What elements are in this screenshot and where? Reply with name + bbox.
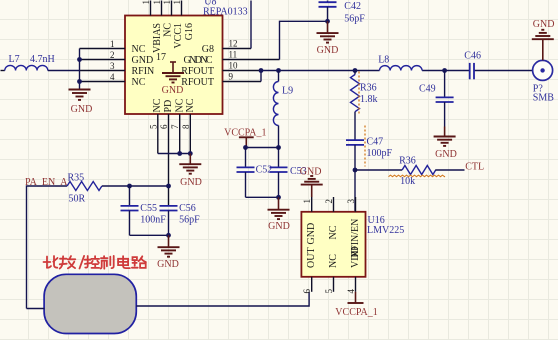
svg-text:GND: GND <box>162 85 184 96</box>
svg-text:NC: NC <box>162 23 173 37</box>
svg-text:LMV225: LMV225 <box>367 225 404 236</box>
wire PA_EN_A corner <box>27 186 68 309</box>
svg-text:RFIN: RFIN <box>132 66 155 77</box>
svg-text:NC: NC <box>328 225 339 239</box>
node C47 bottom junction <box>353 168 358 173</box>
node C42 junction <box>325 19 330 24</box>
svg-text:12: 12 <box>229 39 238 49</box>
svg-text:L7: L7 <box>9 54 20 65</box>
U16 pin 4 VDD <box>346 246 361 293</box>
capacitor C56 56pF <box>160 203 201 235</box>
ground below C42 <box>317 21 339 56</box>
svg-text:C49: C49 <box>419 84 436 95</box>
node pins 9-10 junction <box>259 68 264 73</box>
U8 bottom pin 6 PD <box>159 100 174 206</box>
wire C55 to C56 bottom <box>130 234 169 236</box>
wire C52 to C53 bottom <box>246 196 279 198</box>
svg-text:100nF: 100nF <box>140 214 166 225</box>
U8 pin 10 RFOUT <box>181 61 261 77</box>
svg-text:VCCPA_1: VCCPA_1 <box>335 307 377 318</box>
svg-text:9: 9 <box>229 72 234 82</box>
wire main RF line <box>261 70 532 72</box>
svg-text:GNDNC: GNDNC <box>184 55 213 66</box>
svg-text:R36: R36 <box>399 156 416 167</box>
svg-text:6: 6 <box>302 289 312 294</box>
svg-text:GND: GND <box>132 55 154 66</box>
U8 top pin names VBIAS NC VCC1 G16 <box>152 23 195 53</box>
U16 pin 1 GND <box>302 197 317 245</box>
U8 bottom pin 5 NC <box>148 98 163 153</box>
wire VCC node <box>246 147 279 149</box>
U8 pin 12 G8 <box>202 39 251 55</box>
inductor L7 <box>1 54 80 71</box>
svg-text:1: 1 <box>302 199 312 204</box>
svg-text:100pF: 100pF <box>367 148 393 159</box>
svg-text:G8: G8 <box>202 44 214 55</box>
svg-text:3: 3 <box>110 61 115 71</box>
capacitor C42 56pF <box>319 1 366 25</box>
svg-text:2: 2 <box>324 199 334 204</box>
svg-text:4.7nH: 4.7nH <box>30 54 55 65</box>
U16 pin 5 NC <box>324 254 339 294</box>
U8 pin 3 RFIN <box>80 61 155 77</box>
svg-text:GND: GND <box>435 149 457 160</box>
connector P? SMB <box>533 60 555 103</box>
svg-text:C55: C55 <box>140 203 157 214</box>
svg-text:3: 3 <box>346 199 356 204</box>
capacitor C55 100nF <box>121 186 167 235</box>
svg-text:15: 15 <box>152 0 162 5</box>
svg-text:13: 13 <box>172 0 182 5</box>
svg-text:GND: GND <box>533 19 555 30</box>
svg-text:GND: GND <box>317 45 339 56</box>
op-amp U16 LMV225 body <box>301 212 365 277</box>
node C56 top <box>166 184 171 189</box>
power port VCCPA_1 left <box>224 128 266 148</box>
U16 pin 3 RFIN/EN <box>346 197 361 258</box>
capacitor C47 100pF <box>346 137 393 171</box>
svg-text:10k: 10k <box>400 176 415 187</box>
node C49 tap <box>442 68 447 73</box>
svg-text:16: 16 <box>141 0 151 5</box>
ground above U16 pin1 <box>300 167 323 198</box>
svg-text:G16: G16 <box>184 23 195 40</box>
power port VCCPA_1 under U16 pin4 <box>335 292 377 318</box>
node R36 tap <box>353 68 358 73</box>
U8 internal ground symbol <box>162 62 184 96</box>
node C53 top <box>276 145 281 150</box>
svg-text:56pF: 56pF <box>344 14 365 25</box>
svg-text:5: 5 <box>148 124 158 129</box>
svg-text:C56: C56 <box>179 203 196 214</box>
capacitor C49 <box>419 71 454 127</box>
wire block to U16 pin6 <box>136 292 309 306</box>
U16 pin 2 NC <box>324 197 339 240</box>
node C52 top <box>243 145 248 150</box>
svg-text:PD: PD <box>163 100 174 113</box>
svg-text:NC: NC <box>328 254 339 268</box>
ground left of U8 <box>69 90 93 116</box>
svg-text:GND: GND <box>268 221 290 232</box>
svg-text:VDD: VDD <box>350 246 361 268</box>
svg-text:NC: NC <box>132 44 146 55</box>
svg-text:R35: R35 <box>68 173 85 184</box>
node L9 tap <box>276 68 281 73</box>
svg-text:11: 11 <box>229 50 238 60</box>
ground above SMB <box>532 19 555 60</box>
U16 pin 6 OUT <box>302 247 317 293</box>
svg-text:VCC1: VCC1 <box>173 23 184 49</box>
svg-text:C46: C46 <box>464 51 481 62</box>
svg-text:R36: R36 <box>360 83 377 94</box>
inductor L8 <box>378 55 422 71</box>
inductor L9 <box>273 71 293 148</box>
svg-text:NC: NC <box>174 98 185 112</box>
svg-text:NC: NC <box>132 77 146 88</box>
svg-text:L9: L9 <box>282 86 293 97</box>
svg-text:NC: NC <box>185 98 196 112</box>
capacitor C46 <box>464 51 481 80</box>
ground below C52 C53 <box>268 197 290 232</box>
node pin2 junction <box>77 57 82 62</box>
svg-text:8: 8 <box>181 124 191 129</box>
ground below C55 C56 <box>157 235 179 270</box>
node pin4 junction <box>77 79 82 84</box>
svg-text:C42: C42 <box>344 1 361 12</box>
wire pin11 riser to C42 <box>280 21 328 59</box>
resistor R36 1.8k <box>351 71 378 140</box>
svg-text:GND: GND <box>157 259 179 270</box>
svg-text:56pF: 56pF <box>179 214 200 225</box>
svg-text:NC: NC <box>152 98 163 112</box>
resistor R35 50R <box>67 173 168 205</box>
svg-text:GND: GND <box>71 104 93 115</box>
capacitor C52 <box>237 148 273 198</box>
svg-text:10: 10 <box>229 61 239 71</box>
node C55 top <box>127 184 132 189</box>
wire to U16 pin3 <box>354 170 356 212</box>
U8 bottom pin 7 NC <box>170 98 185 153</box>
svg-text:L8: L8 <box>378 55 389 66</box>
text 比较/控制电路 <box>44 256 146 269</box>
svg-text:REPA0133: REPA0133 <box>203 6 248 17</box>
U8 bottom pin 8 NC <box>181 98 196 153</box>
orange marker beside C47 <box>364 126 366 167</box>
orange marker beside R36 <box>358 72 360 114</box>
U8 hidden pin 17 label <box>156 52 166 63</box>
U8 pin 1 NC <box>80 39 146 55</box>
svg-text:2: 2 <box>110 50 115 60</box>
orange squiggle under 10k <box>389 175 446 177</box>
wire into block left <box>27 308 45 310</box>
capacitor C53 <box>270 148 307 198</box>
svg-text:C47: C47 <box>367 137 384 148</box>
ground below U8 pins <box>179 154 202 189</box>
svg-text:1.8k: 1.8k <box>360 94 378 105</box>
svg-text:14: 14 <box>162 0 172 5</box>
wire left vertical to ground <box>79 49 81 90</box>
svg-text:1: 1 <box>110 39 115 49</box>
U16 designator label <box>367 215 404 236</box>
svg-text:5: 5 <box>324 289 334 294</box>
svg-text:C52: C52 <box>256 165 273 176</box>
node pin7 junction <box>177 151 182 156</box>
svg-text:RFOUT: RFOUT <box>181 77 214 88</box>
U8 top pin stubs 16 15 14 13 <box>141 0 182 16</box>
node pin8 junction <box>188 151 193 156</box>
resistor R36 10k <box>355 156 465 187</box>
svg-text:50R: 50R <box>69 194 86 205</box>
svg-text:SMB: SMB <box>533 93 554 104</box>
comparison/control block <box>44 274 136 333</box>
svg-text:GND: GND <box>180 177 202 188</box>
svg-text:CTL: CTL <box>465 162 484 173</box>
svg-text:7: 7 <box>170 124 180 129</box>
svg-text:4: 4 <box>110 72 115 82</box>
op-amp U8 REPA0133 body <box>125 16 223 115</box>
wire pin12 riser <box>250 1 252 49</box>
svg-text:RFOUT: RFOUT <box>181 66 214 77</box>
U8 pin 4 NC <box>80 72 146 88</box>
svg-text:6: 6 <box>159 124 169 129</box>
node caps bottom junction <box>276 195 281 200</box>
U8 designator label <box>203 0 248 17</box>
svg-text:GND: GND <box>306 223 317 245</box>
ground below C49 <box>434 127 457 161</box>
node C55 C56 bottom junction <box>166 233 171 238</box>
U8 pin 2 GND <box>80 50 154 66</box>
svg-text:OUT: OUT <box>306 247 317 268</box>
U8 pin 9 RFOUT <box>181 72 261 88</box>
svg-text:4: 4 <box>346 289 356 294</box>
wire pins5-8 bus <box>158 153 191 155</box>
wire pin9 to pin10 <box>260 71 262 82</box>
U8 pin 11 GND2/NC <box>184 50 280 66</box>
